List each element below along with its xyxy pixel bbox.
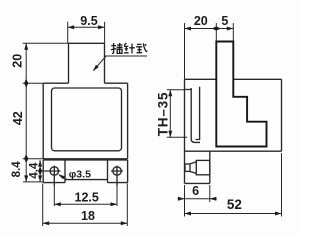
dim 9.5: dimension line [68, 26, 105, 28]
svg-text:42: 42 [11, 111, 25, 125]
svg-text:18: 18 [81, 209, 95, 223]
dim 52: dimension line [185, 213, 282, 215]
dim TH-35: extension lines [167, 90, 188, 138]
front view: top protrusion (pin header) [69, 43, 105, 83]
dim 6: extension lines [185, 185, 210, 202]
front view: recessed bottom edge between tabs (also underline of dia 3.5 label) [65, 179, 108, 181]
front view: right mounting tab [108, 160, 128, 183]
arrowhead 6 left outside [178, 197, 185, 201]
front view: left mounting tab [43, 160, 65, 183]
mounting hole left crosshair [45, 166, 61, 186]
dim 9.5: extension lines [68, 22, 105, 44]
front view: body outer rectangle [43, 83, 127, 159]
svg-text:12.5: 12.5 [75, 191, 99, 205]
svg-text:5: 5 [221, 14, 228, 28]
front view: flange top edge [43, 159, 127, 161]
svg-text:6: 6 [192, 184, 199, 198]
dim 8.4: extension at body bottom [23, 158, 44, 160]
front view: body inner rounded frame [52, 88, 122, 151]
arrowhead 18 left [43, 221, 50, 225]
arrowhead 5 right [227, 27, 234, 31]
side view: body outline [185, 79, 282, 151]
dim 12.5: dimension line [54, 203, 117, 205]
junction diamond 42/8.4 [24, 154, 28, 163]
svg-text:20: 20 [11, 54, 25, 68]
arrowhead 4.4 down [38, 175, 42, 182]
side view: dark staircase moulding outline [216, 42, 266, 147]
label pin-type (Chinese glyphs drawn as strokes) [111, 43, 147, 53]
arrowhead TH-35 up [168, 90, 172, 97]
arrowhead 12.5 right [111, 202, 118, 206]
dim 42: extension at body top [23, 82, 44, 84]
side view: DIN rail slot lip [185, 88, 192, 89]
dim 20 left: extension line at protrusion top [23, 42, 69, 44]
dim 4.4: extension to hole center [40, 170, 44, 172]
side view: connector plug mid piece [190, 162, 196, 173]
dim 12.5: extension lines below holes [54, 186, 117, 206]
glyph shi (type) [136, 43, 147, 52]
mounting hole left [50, 167, 58, 175]
side view: clip channel left wall with bottom hook [191, 88, 200, 142]
arrowhead TH-35 down [168, 131, 172, 138]
svg-text:4.4: 4.4 [29, 162, 41, 179]
dim TH-35: dimension line [169, 90, 171, 138]
svg-text:9.5: 9.5 [80, 14, 97, 28]
label pin-type: leader line [94, 56, 107, 70]
dim 20/5 top: extension lines [185, 23, 234, 79]
svg-text:20: 20 [194, 14, 208, 28]
dim 8.4: extension at flange bottom [23, 181, 43, 183]
side view: connector plug large box [196, 160, 210, 174]
arrowhead 18 right [121, 221, 128, 225]
label pin-type: underline [105, 55, 147, 57]
svg-text:8.4: 8.4 [11, 161, 23, 178]
dim 4.4 dimension line [39, 160, 41, 182]
junction diamond 4.4 at hole center [38, 167, 42, 176]
svg-text:φ3.5: φ3.5 [69, 168, 91, 180]
svg-text:TH–35: TH–35 [155, 92, 170, 137]
mounting hole right [113, 167, 121, 175]
side view: clip channel right wall [196, 87, 200, 140]
arrowhead 6 right outside [210, 197, 217, 201]
side view: bottom connector outline [185, 151, 210, 183]
arrowhead 52 right [275, 212, 282, 216]
arrowhead 8.4 down [24, 175, 28, 182]
arrowhead label dia3.5 leader [58, 174, 65, 179]
arrowhead 20 up [24, 43, 28, 50]
junction diamond 20/5 [212, 26, 221, 30]
svg-text:52: 52 [227, 197, 242, 212]
arrowhead 9.5 left [68, 25, 75, 29]
arrowhead label pin-type leader [93, 65, 99, 72]
label dia3.5: leader line [59, 175, 67, 180]
dim 18: extension lines [43, 184, 128, 227]
arrowhead 12.5 left [54, 202, 61, 206]
glyph zhen (needle) [124, 43, 135, 53]
dim 52: extension line right [281, 153, 283, 217]
arrowhead 4.4 up [38, 160, 42, 167]
arrowhead 20 top-right left [185, 27, 192, 31]
junction diamond 20/42 [24, 79, 28, 88]
arrowhead 9.5 right [98, 25, 105, 29]
dim 20/42/8.4 chained dimension line [25, 43, 27, 182]
arrowhead 52 left [185, 212, 192, 216]
glyph cha (insert) [111, 43, 123, 53]
dim 20/5: dimension line [185, 28, 234, 30]
dim 18: dimension line [43, 222, 128, 224]
dim 52: extension line left (connector edge extended) [184, 185, 186, 217]
dim 6: dimension line with outside tails [178, 198, 217, 200]
mounting hole right crosshair [111, 166, 123, 186]
side view: connector plug small box [185, 164, 190, 171]
